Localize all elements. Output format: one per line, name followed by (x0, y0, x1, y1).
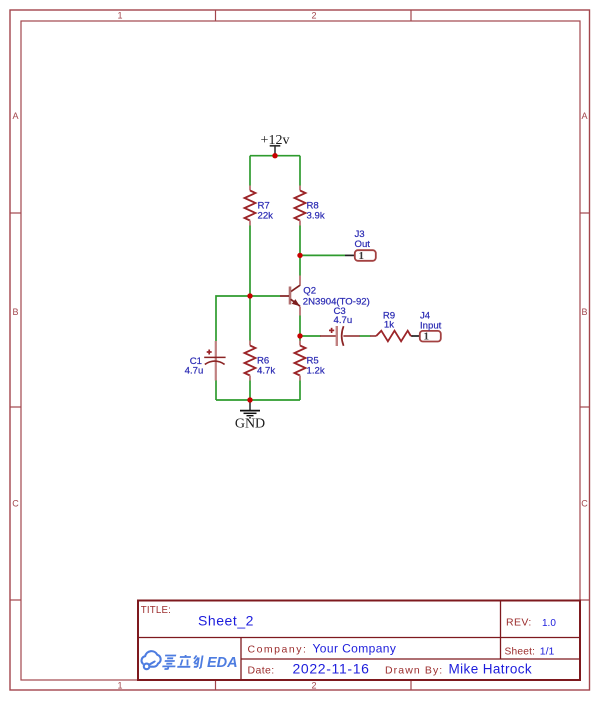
wire base lead (250, 295, 280, 297)
frame tick bottom 1 (215, 680, 217, 690)
wire top rail (250, 155, 300, 157)
svg-text:Input: Input (420, 321, 442, 332)
wire R8 bottom to collector (299, 225, 301, 276)
svg-text:C: C (581, 499, 588, 509)
svg-text:1k: 1k (384, 320, 394, 331)
junction node emitter/C3 (297, 333, 302, 338)
svg-text:Out: Out (355, 239, 371, 250)
transistor Q2 (280, 276, 300, 316)
svg-text:Drawn By:: Drawn By: (385, 665, 443, 677)
svg-text:2: 2 (311, 11, 316, 21)
svg-text:A: A (12, 111, 18, 121)
svg-text:Date:: Date: (248, 665, 275, 677)
frame tick top 1 (215, 10, 217, 21)
svg-text:EDA: EDA (207, 655, 238, 671)
svg-text:3.9k: 3.9k (307, 210, 325, 221)
svg-text:4.7k: 4.7k (257, 365, 275, 376)
svg-text:1: 1 (359, 250, 365, 262)
title block row line 1 (138, 637, 580, 639)
svg-text:2: 2 (311, 681, 316, 691)
frame tick top 2 (410, 10, 412, 21)
svg-text:22k: 22k (258, 210, 274, 221)
wire R7 bottom to base node (249, 225, 251, 296)
svg-text:TITLE:: TITLE: (141, 605, 171, 616)
svg-text:REV:: REV: (506, 616, 532, 628)
svg-text:B: B (581, 307, 587, 317)
svg-text:+12v: +12v (261, 133, 290, 148)
wire right column upper (299, 156, 301, 186)
svg-text:4.7u: 4.7u (185, 365, 204, 376)
wire C3 to R9 (360, 335, 371, 337)
wire R5 bottom to rail (299, 380, 301, 400)
svg-text:1: 1 (117, 11, 122, 21)
logo cloud icon (142, 651, 161, 669)
power flag +12v (261, 133, 290, 156)
title block rev column divider (500, 601, 502, 660)
svg-text:C: C (12, 499, 19, 509)
junction node ground rail (247, 397, 252, 402)
svg-text:2022-11-16: 2022-11-16 (293, 661, 370, 677)
title block logo cell divider (240, 637, 242, 680)
junction node base (247, 293, 252, 298)
svg-text:Sheet:: Sheet: (505, 647, 536, 658)
frame tick right 1 (580, 212, 590, 214)
frame tick right 3 (580, 599, 590, 601)
resistor R9 (370, 331, 413, 342)
capacitor C3 (320, 326, 360, 346)
svg-text:B: B (12, 307, 18, 317)
svg-text:Your Company: Your Company (313, 641, 397, 655)
frame tick left 1 (10, 212, 21, 214)
wire collector node to J3 (300, 254, 345, 256)
junction node collector/J3 (297, 253, 302, 258)
svg-text:Sheet_2: Sheet_2 (198, 613, 254, 629)
connector J4 (412, 331, 441, 343)
svg-text:1: 1 (117, 681, 122, 691)
svg-text:Company:: Company: (248, 643, 308, 655)
wire bottom rail (216, 399, 300, 401)
capacitor C1 (204, 341, 225, 381)
svg-text:1: 1 (424, 331, 430, 343)
frame tick right 2 (580, 406, 590, 408)
wire emitter node to C3 (300, 335, 321, 337)
svg-text:GND: GND (235, 416, 265, 431)
logo text 嘉立创EDA (162, 655, 203, 670)
svg-text:4.7u: 4.7u (334, 315, 353, 326)
ground (235, 400, 265, 431)
resistor R6 (245, 341, 256, 381)
wire C1 bottom (215, 380, 217, 400)
resistor R8 (295, 186, 306, 226)
title block row line 2 (241, 658, 580, 660)
wire R6 bottom to rail (249, 380, 251, 400)
title block box (138, 601, 580, 681)
svg-text:Mike Hatrock: Mike Hatrock (449, 662, 533, 677)
svg-text:1.0: 1.0 (542, 618, 556, 629)
wire left column upper (249, 156, 251, 186)
frame tick left 2 (10, 406, 21, 408)
wire base node to R6 top (249, 296, 251, 341)
svg-text:A: A (581, 111, 587, 121)
junction node +12v rail (272, 153, 277, 158)
connector J3 (345, 250, 376, 262)
resistor R7 (245, 186, 256, 226)
wire emitter to node (299, 316, 301, 342)
resistor R5 (295, 341, 306, 381)
svg-text:1/1: 1/1 (540, 646, 555, 658)
svg-text:2N3904(TO-92): 2N3904(TO-92) (303, 296, 370, 307)
svg-text:1.2k: 1.2k (307, 365, 325, 376)
wire base node to C1 branch (216, 296, 250, 341)
frame tick left 3 (10, 599, 21, 601)
frame tick bottom 2 (410, 680, 412, 690)
svg-text:Q2: Q2 (303, 286, 316, 297)
